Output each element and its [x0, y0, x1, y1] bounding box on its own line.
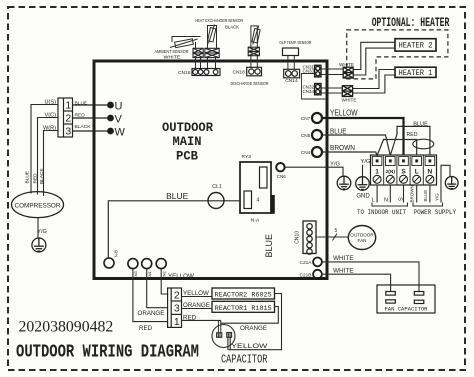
capacitor C1 [212, 325, 235, 348]
svg-text:POWER SUPPLY: POWER SUPPLY [414, 209, 457, 216]
svg-text:CN4: CN4 [301, 150, 311, 155]
svg-text:AMBIENT SENSOR: AMBIENT SENSOR [155, 49, 189, 55]
discharge sensor thermistor RT3 [251, 26, 260, 48]
wire reactor1 to capacitor ORANGE [221, 307, 278, 324]
svg-text:202038090482: 202038090482 [19, 319, 114, 336]
wire YELLOW CN7 to terminal S [322, 118, 404, 155]
ambient sensor thermistor RT1 [170, 37, 201, 49]
connector CN2 [156, 259, 166, 269]
svg-text:Y/G: Y/G [435, 193, 440, 201]
wire terminal 2N down N [389, 185, 391, 203]
wire plug2 to heater1 a [353, 70, 395, 89]
wire earth Y/G to ground G3 [441, 165, 450, 202]
wire C21B WHITE to fan capacitor [322, 274, 391, 291]
svg-text:OUTDOOR WIRING DIAGRAM: OUTDOOR WIRING DIAGRAM [16, 343, 199, 363]
svg-text:WHITE: WHITE [341, 98, 356, 103]
svg-text:Y/G: Y/G [330, 162, 340, 168]
svg-text:BLACK: BLACK [75, 124, 92, 130]
terminal block TB2 outline [371, 155, 437, 185]
wire U(S) to compressor [31, 105, 58, 194]
svg-text:YELLOW: YELLOW [231, 343, 268, 350]
svg-text:Y/G: Y/G [361, 159, 371, 165]
wire C21A WHITE to fan capacitor [322, 262, 419, 292]
svg-text:1: 1 [174, 316, 180, 328]
terminal S [399, 157, 409, 184]
svg-text:RED: RED [407, 132, 418, 138]
ground G1 [337, 176, 351, 190]
svg-text:CAPACITOR: CAPACITOR [221, 352, 267, 366]
terminal block TB3 (2 3 1) [168, 288, 182, 327]
wire BLUE to U [73, 104, 109, 106]
thick wire stub right of RY3 [270, 195, 274, 214]
svg-text:BLACK: BLACK [225, 24, 240, 30]
connector CN1 [142, 259, 152, 269]
svg-text:ORANGE: ORANGE [183, 302, 210, 309]
svg-text:CN18: CN18 [232, 70, 245, 76]
svg-text:BLUE: BLUE [166, 192, 188, 201]
heater H1 [395, 67, 436, 77]
svg-text:YELLOW: YELLOW [330, 108, 358, 117]
reactor REACTOR1 R1815 [212, 301, 275, 312]
svg-text:FAN: FAN [358, 238, 367, 243]
svg-text:WHITE: WHITE [333, 267, 354, 274]
svg-text:BLUE: BLUE [423, 190, 428, 202]
wire CN34 to plug2 [321, 92, 342, 94]
svg-text:YELLOW: YELLOW [183, 290, 209, 297]
svg-text:OPTIONAL: HEATER: OPTIONAL: HEATER [372, 15, 450, 30]
fan capacitor C2 box [377, 285, 435, 313]
wire terminal N down BLUE [429, 185, 431, 203]
wire heat pin1 [207, 58, 209, 69]
sub-board box around CN32/CN34 [302, 74, 326, 100]
OLP temp sensor S1 [283, 48, 299, 56]
wire RED to V [73, 117, 109, 119]
terminal 1 [372, 157, 382, 184]
wire reactor2 to capacitor YELLOW [229, 294, 282, 350]
svg-text:N: N [428, 168, 433, 175]
svg-text:Y/G: Y/G [37, 229, 47, 235]
svg-text:CN1: CN1 [147, 271, 152, 279]
wire ambient pin2 [200, 58, 202, 69]
svg-text:N-B: N-B [113, 250, 118, 257]
wire BLUE CN5 to terminal 2N [322, 135, 390, 156]
connector CN16 [192, 69, 220, 76]
svg-text:TO INDOOR UNIT: TO INDOOR UNIT [357, 209, 406, 216]
svg-text:RED: RED [75, 112, 86, 118]
svg-text:MAIN: MAIN [173, 134, 202, 149]
wire CN32 to plug2 [321, 87, 342, 89]
wire discharge pin2 [256, 56, 258, 68]
svg-text:V: V [115, 114, 123, 126]
svg-text:GND: GND [356, 194, 370, 200]
terminal block TB1 (1 2 3) [58, 98, 73, 137]
svg-text:HEATER 2: HEATER 2 [399, 42, 433, 51]
svg-text:ORANGE: ORANGE [138, 310, 165, 317]
heater H2 [395, 39, 436, 51]
svg-text:BROWN: BROWN [330, 143, 355, 152]
svg-text:5: 5 [335, 228, 338, 234]
svg-text:WHITE: WHITE [333, 255, 354, 262]
svg-text:Ct.1: Ct.1 [212, 184, 222, 190]
svg-text:1: 1 [65, 99, 71, 111]
node U [107, 102, 114, 109]
wire to ground G2 [362, 165, 364, 177]
wire W(R) to compressor [44, 131, 59, 197]
reactor REACTOR2 R6025 [212, 288, 275, 299]
svg-text:OLP TEMP. SENSOR: OLP TEMP. SENSOR [279, 40, 311, 46]
svg-text:BLUE: BLUE [24, 171, 30, 184]
svg-text:RED: RED [139, 325, 153, 332]
heat exchanger sensor thermistor RT2 [208, 25, 217, 49]
svg-text:YELLOW: YELLOW [168, 273, 194, 280]
svg-text:BLUE: BLUE [264, 234, 275, 258]
connector plug ambient (to CN16) [193, 48, 203, 57]
svg-text:L: L [415, 168, 419, 175]
wire BLUE terminal N to terminal 2N [390, 126, 430, 155]
compressor M1 [12, 192, 64, 218]
connector plug discharge (to CN18) [248, 47, 259, 56]
svg-text:CN34: CN34 [302, 89, 314, 94]
connector CN7 [312, 113, 322, 123]
svg-text:CN6: CN6 [277, 174, 286, 179]
bracket TO INDOOR UNIT [372, 203, 408, 207]
svg-text:PCB: PCB [176, 149, 198, 164]
wire block1 to capacitor RED [182, 319, 221, 321]
wire discharge pin1 [250, 56, 252, 68]
wire CN3 to block pin1 [133, 269, 168, 322]
ground compressor [32, 238, 46, 252]
svg-text:COMPRESSOR: COMPRESSOR [15, 202, 61, 209]
wire CN2 to block pin2 [161, 269, 167, 294]
svg-text:L: L [371, 197, 374, 203]
svg-text:CN14: CN14 [285, 78, 298, 84]
svg-text:CN10: CN10 [295, 231, 301, 244]
node V [107, 115, 114, 122]
connector C21B [313, 270, 322, 279]
node W [107, 128, 114, 135]
wire block3 to reactor1 ORANGE [182, 308, 213, 310]
svg-text:U: U [115, 101, 123, 113]
PCB U1 outline [94, 61, 327, 279]
wire BLACK to W [73, 130, 109, 132]
svg-text:OUTDOOR: OUTDOOR [162, 120, 213, 135]
svg-text:C21B: C21B [300, 272, 312, 278]
motor outdoor fan [348, 226, 375, 250]
wire terminal S down S [403, 185, 405, 203]
connector CN18 [247, 67, 262, 76]
svg-text:HEAT EXCHANGER SENSOR: HEAT EXCHANGER SENSOR [195, 18, 243, 24]
connector CN10 [303, 221, 316, 254]
wire terminal 1 down L [376, 185, 378, 203]
svg-text:BLUE: BLUE [413, 121, 428, 127]
wire CN33 to plug1 [321, 74, 343, 76]
svg-text:RED: RED [33, 173, 39, 184]
cable loop ellipse on L/N wires [413, 139, 434, 149]
svg-text:2(N): 2(N) [386, 169, 396, 175]
svg-text:DISCHARGE SENSOR: DISCHARGE SENSOR [231, 81, 269, 87]
svg-text:CN33: CN33 [302, 69, 314, 74]
terminal N [425, 157, 435, 184]
wire BLUE main to RY3 [108, 201, 240, 258]
wire CN1 to block pin3 [147, 269, 168, 308]
wire block2 to reactor2 YELLOW [182, 296, 213, 298]
svg-text:3: 3 [174, 303, 180, 315]
optional heater dashed boundary [347, 30, 448, 79]
wire ambient pin1 [195, 58, 197, 69]
connector CN6 [276, 163, 284, 171]
svg-text:CN3: CN3 [133, 271, 138, 279]
svg-text:FAN CAPACITOR: FAN CAPACITOR [385, 306, 428, 313]
connector C21A [313, 258, 322, 267]
node N-B [104, 258, 114, 268]
connector CN3 [128, 259, 138, 269]
wire BROWN CN4 to terminal 1 [322, 152, 377, 156]
svg-text:3: 3 [65, 125, 71, 137]
terminal 2(N) [386, 157, 396, 184]
svg-text:4: 4 [257, 198, 260, 204]
wire RED terminal L to terminal 1 [377, 140, 417, 156]
svg-text:CN16: CN16 [178, 70, 191, 76]
svg-text:S: S [401, 168, 406, 175]
svg-text:BLUE: BLUE [75, 100, 89, 106]
svg-text:1: 1 [375, 168, 379, 175]
wire compressor to ground [37, 218, 39, 239]
PCB label OUTDOOR MAIN PCB [162, 120, 213, 164]
svg-text:W: W [115, 127, 126, 139]
ground G2 GND [356, 177, 370, 191]
wire OLP pin2 [293, 56, 295, 70]
svg-text:RY3: RY3 [242, 154, 252, 160]
svg-text:S: S [396, 197, 402, 201]
svg-text:N-A: N-A [251, 217, 260, 223]
connector plug heat exchanger (to CN16) [205, 48, 219, 57]
svg-text:REACTOR2 R6025: REACTOR2 R6025 [215, 292, 272, 299]
wire terminal L down BROWN [416, 185, 418, 203]
heater plug 2 WHITE [342, 86, 352, 97]
wire V(C) to compressor [38, 118, 59, 195]
ground G3 [445, 177, 458, 190]
wire CN31 to plug1 [321, 68, 343, 70]
svg-text:C21A: C21A [300, 260, 313, 266]
wire plug2 to heater1 b [353, 75, 395, 93]
svg-text:ORANGE: ORANGE [240, 325, 268, 332]
bracket POWER SUPPLY [413, 203, 443, 207]
svg-text:WHITE: WHITE [339, 62, 354, 67]
wire OLP pin1 [287, 56, 289, 70]
wire CN10 to outdoor fan (5) [316, 236, 349, 238]
connector CN14 [284, 69, 300, 78]
wire plug1 to heater2 b [353, 48, 395, 75]
svg-text:CN2: CN2 [162, 271, 167, 279]
svg-text:HEATER 1: HEATER 1 [399, 69, 433, 78]
svg-text:CN5: CN5 [301, 133, 311, 138]
svg-text:RED: RED [183, 314, 197, 321]
svg-text:N: N [384, 197, 388, 203]
svg-text:2: 2 [65, 112, 71, 124]
terminal L [412, 157, 422, 184]
svg-text:WHITE: WHITE [164, 54, 182, 60]
svg-text:REACTOR1 R1815: REACTOR1 R1815 [215, 305, 272, 312]
wire CN6 to ground Y/G [285, 167, 343, 176]
connector CN4 [312, 147, 322, 157]
wire heat pin2 [215, 58, 217, 69]
svg-text:BLACK: BLACK [39, 167, 45, 184]
wire plug1 to heater2 a [353, 42, 395, 69]
connector CN5 [312, 130, 322, 140]
svg-text:BLUE: BLUE [330, 127, 347, 136]
svg-text:BROWN: BROWN [410, 185, 415, 202]
svg-text:2: 2 [174, 289, 180, 301]
svg-text:OUTDOOR: OUTDOOR [350, 232, 374, 237]
svg-text:CN7: CN7 [301, 116, 311, 121]
